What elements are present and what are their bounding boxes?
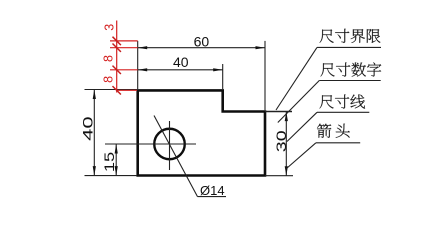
svg-text:8: 8 — [101, 55, 115, 62]
extension line top-left (for 40 left dim) — [85, 89, 138, 91]
red ext line y69.8 — [110, 69, 138, 71]
svg-text:15: 15 — [102, 152, 118, 172]
label chicun-jiexian — [320, 29, 381, 43]
dimension line 15 vertical — [115, 144, 117, 176]
leader to dim line (chicun xian) — [287, 112, 317, 141]
circle centerline vertical — [169, 121, 171, 170]
svg-text:3: 3 — [102, 24, 116, 31]
extension line right bottom — [265, 175, 293, 177]
red tick marks — [113, 37, 121, 45]
extension line right of 40 dim — [222, 64, 224, 89]
svg-text:Ø14: Ø14 — [200, 183, 225, 198]
dimension line 30 — [285, 112, 287, 176]
leader to arrow (jiantou) — [287, 143, 316, 169]
leader line for hole diameter — [154, 116, 198, 197]
label chicun-shuzi — [321, 62, 382, 76]
red dim stack vertical line — [116, 21, 118, 93]
red ext line y40.9 — [110, 40, 138, 42]
dimension line 40 left vertical — [93, 90, 95, 176]
extension line right top (for 30 dim) — [265, 111, 292, 113]
label jiantou — [317, 124, 350, 138]
dimension line 40 top — [138, 69, 223, 71]
label chicun-xian — [320, 94, 365, 108]
extension line bottom-left — [85, 175, 138, 177]
dimension line 60 — [138, 47, 265, 49]
extension line left (shared 60/40) — [137, 41, 139, 89]
red ext line y47.7 — [110, 47, 138, 49]
svg-text:60: 60 — [194, 33, 210, 49]
svg-text:8: 8 — [101, 76, 115, 83]
svg-text:40: 40 — [80, 116, 96, 141]
leader to dim number (chicun shuzi) — [278, 81, 320, 123]
circle centerline horizontal / ext line for 15 dim — [105, 143, 196, 145]
svg-text:40: 40 — [173, 54, 189, 70]
red ext line y90.3 — [117, 89, 137, 91]
part outline — [138, 90, 265, 175]
leader to extension line (chicun jiexian) — [276, 47, 317, 110]
hole circle — [154, 129, 185, 160]
extension line right of 60 dim — [264, 41, 266, 110]
